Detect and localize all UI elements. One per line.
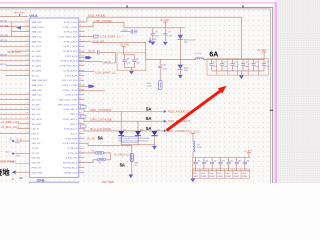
pin number right row 31 <box>80 165 82 166</box>
pin stub right row 6 <box>79 45 84 47</box>
capacitor C81 <box>203 158 205 163</box>
pin stub right row 22 <box>79 123 84 125</box>
svg-text:ILI/TB_2_BCK: ILI/TB_2_BCK <box>64 32 78 34</box>
inductor L9 <box>195 58 204 59</box>
pin number U9-B <box>12 178 14 179</box>
svg-text:0.1uF: 0.1uF <box>213 66 217 68</box>
pin number right row 6 <box>80 44 82 45</box>
workspace area right of sheet <box>278 0 320 183</box>
svg-text:PWR_ON: PWR_ON <box>32 167 42 169</box>
svg-text:C72: C72 <box>223 62 226 64</box>
svg-text:C76: C76 <box>265 62 268 64</box>
pin number right row 7 <box>80 49 82 50</box>
pin stub right row 8 <box>79 55 84 57</box>
wire R46 leads <box>106 159 111 161</box>
svg-text:SMB_RST: SMB_RST <box>32 41 43 43</box>
component box right cap row <box>207 59 268 76</box>
capacitor C64 horizontal <box>79 51 97 53</box>
capacitor C68 <box>159 59 161 66</box>
svg-text:5V8_D1: 5V8_D1 <box>0 64 7 66</box>
svg-text:ILI/TB_1_PCM: ILI/TB_1_PCM <box>63 46 77 48</box>
svg-text:5A: 5A <box>120 162 125 167</box>
capacitor C82 <box>211 158 213 163</box>
svg-text:VDD_SD: VDD_SD <box>32 143 41 145</box>
wire BLU_CATHODE <box>79 128 164 131</box>
svg-text:SD_WP: SD_WP <box>32 104 40 106</box>
svg-text:ILI3A_NN: ILI3A_NN <box>92 39 104 43</box>
pin stub right row 20 <box>79 113 84 115</box>
IC U9-A body <box>30 18 79 177</box>
pin number right row 26 <box>80 141 82 142</box>
ferrite bead FB3 <box>79 36 94 38</box>
svg-text:ILI/TB_FB: ILI/TB_FB <box>68 153 78 155</box>
note box LED parts <box>122 136 138 142</box>
svg-text:GBE_GVDK_CTRL2: GBE_GVDK_CTRL2 <box>58 104 79 106</box>
svg-text:SPI_CS0: SPI_CS0 <box>32 109 42 111</box>
svg-text:SENSE_GND: SENSE_GND <box>64 172 78 174</box>
wire left pin row 18 <box>0 103 30 105</box>
svg-text:TP11: TP11 <box>123 30 127 32</box>
wire left pin row 23 <box>18 128 30 130</box>
svg-text:5V8_D0: 5V8_D0 <box>0 54 7 56</box>
svg-text:0.1uF: 0.1uF <box>265 66 269 68</box>
power port down arrow <box>149 38 151 41</box>
wire left pin row 20 <box>0 113 30 115</box>
ground right cap row <box>240 71 242 76</box>
pin number right row 5 <box>80 39 82 40</box>
zone tick top <box>126 5 129 7</box>
pin stub right row 30 <box>79 162 84 164</box>
pin stub right row 32 <box>79 171 84 173</box>
svg-text:0.1uF: 0.1uF <box>155 36 159 38</box>
svg-text:+5_AU: +5_AU <box>87 136 96 140</box>
ground mid cluster <box>131 68 133 71</box>
port arrow ground annotation <box>12 170 16 174</box>
ground below D16 <box>179 69 181 75</box>
svg-text:[4]: [4] <box>16 126 19 129</box>
pin number right row 30 <box>80 161 82 162</box>
pin stub right row 17 <box>79 99 84 101</box>
svg-text:DNP: DNP <box>153 39 156 41</box>
wire left pin row 8 <box>0 55 30 57</box>
LED D21 BLU <box>154 130 156 132</box>
svg-text:GBE_GVDK_CTRL: GBE_GVDK_CTRL <box>59 100 78 102</box>
svg-text:ILI/TB_BLU_K: ILI/TB_BLU_K <box>64 129 78 131</box>
svg-text:LED_G: LED_G <box>32 133 39 135</box>
svg-text:SPI_MISO: SPI_MISO <box>32 124 42 126</box>
svg-text:5V8_SDA: 5V8_SDA <box>0 24 9 27</box>
pin number right row 1 <box>80 20 82 21</box>
svg-text:ILI/TB_A_BCK: ILI/TB_A_BCK <box>63 69 77 72</box>
wire left pin row 1 <box>0 21 30 23</box>
svg-text:BZT52C4V2 BZT52C4V2 BZT52C4V2: BZT52C4V2 BZT52C4V2 BZT52C4V2 BZ <box>119 138 150 140</box>
component box C66 C67 <box>117 53 146 71</box>
wire net USD_ANODE 2 <box>79 22 124 27</box>
wire left pin row 11 <box>0 70 30 72</box>
svg-text:10.0BG: 10.0BG <box>242 176 248 178</box>
inductor L10 vertical <box>193 141 195 152</box>
wire left pin row 22 <box>18 123 30 125</box>
svg-text:BLU_K: BLU_K <box>71 133 78 135</box>
capacitor C83 <box>219 158 221 163</box>
pin stub right row 31 <box>79 167 84 169</box>
wire R45 right <box>104 153 111 160</box>
pin number right row 22 <box>80 122 82 123</box>
pin stub right row 12 <box>79 74 84 76</box>
svg-text:5V8_SD: 5V8_SD <box>0 20 8 22</box>
sheet border pink right <box>275 2 278 183</box>
wire RED_CATHODE <box>79 109 164 112</box>
svg-text:ILI/TB_PWM_A: ILI/TB_PWM_A <box>63 142 78 145</box>
svg-text:USD_ANODE: USD_ANODE <box>88 13 106 17</box>
wire ground annotation to pin <box>16 171 30 173</box>
svg-text:ILI/TB_GPIO2_BCK: ILI/TB_GPIO2_BCK <box>58 36 78 38</box>
wire bottom cap bus lower <box>193 170 251 172</box>
pin number right row 4 <box>80 34 82 35</box>
wire stub UART label <box>19 14 21 16</box>
svg-text:C83: C83 <box>222 161 225 163</box>
svg-text:SMB_SD2: SMB_SD2 <box>32 90 43 92</box>
svg-text:SD_DAT3: SD_DAT3 <box>32 69 42 72</box>
svg-text:C64 1uF: C64 1uF <box>88 51 96 53</box>
svg-text:TP_EN: TP_EN <box>32 148 39 150</box>
pin number right row 14 <box>80 83 82 84</box>
svg-text:ILI/TB_RSV: ILI/TB_RSV <box>66 158 78 160</box>
svg-text:C74: C74 <box>244 62 247 64</box>
svg-text:LED_R: LED_R <box>32 129 39 131</box>
pin number right row 32 <box>80 170 82 171</box>
capacitor C84 <box>228 158 230 163</box>
pin number right row 27 <box>80 146 82 147</box>
svg-text:SMB_CS2: SMB_CS2 <box>32 95 43 97</box>
svg-text:10.0BG: 10.0BG <box>201 176 207 178</box>
capacitor C80 <box>195 158 197 163</box>
port arrow right <box>79 57 86 59</box>
sheet frame gray outer <box>0 8 273 183</box>
wire +5 rail top <box>124 27 185 29</box>
svg-text:0.1uF: 0.1uF <box>234 66 238 68</box>
wire net to rail2 <box>92 42 146 59</box>
capacitor C76 <box>263 59 265 63</box>
svg-text:VSD_PWM: VSD_PWM <box>32 172 43 174</box>
svg-text:ILI/TB_PWM: ILI/TB_PWM <box>65 138 77 140</box>
svg-text:D21: D21 <box>157 129 160 131</box>
annotation arrow red <box>167 90 222 131</box>
svg-text:SD_DAT2: SD_DAT2 <box>32 65 42 68</box>
svg-text:+5_VIN: +5_VIN <box>257 48 266 52</box>
pin stub right row 9 <box>79 60 84 62</box>
port BLU_ANODE <box>164 129 167 132</box>
net label ILI3A_BSMT_LC 2 <box>79 71 95 73</box>
capacitor C73 <box>232 59 234 63</box>
wire TP32 to pin <box>15 140 29 142</box>
pin stub right row 25 <box>79 137 84 139</box>
pin number right row 20 <box>80 112 82 113</box>
svg-text:5A: 5A <box>98 136 103 141</box>
svg-text:ILI/TB_1_CTRL: ILI/TB_1_CTRL <box>63 27 79 29</box>
pin stub right row 10 <box>79 65 84 67</box>
capacitor C72 <box>221 59 223 63</box>
svg-text:0.1uF: 0.1uF <box>223 66 227 68</box>
svg-text:SD_CLK1: SD_CLK1 <box>32 100 42 102</box>
svg-text:10.0BG: 10.0BG <box>217 176 223 178</box>
capacitor C75 <box>253 59 255 63</box>
svg-text:+5_ABC5 [C]: +5_ABC5 [C] <box>113 152 130 156</box>
svg-text:4.7uH: 4.7uH <box>197 147 202 149</box>
svg-text:6A: 6A <box>209 52 218 59</box>
wire left pin row 16 <box>0 94 30 96</box>
pin stub right row 16 <box>79 94 84 96</box>
svg-text:BLU_ANODE [C]: BLU_ANODE [C] <box>168 129 190 133</box>
diode D16 SS34 <box>179 59 181 64</box>
svg-text:[4]: [4] <box>16 121 19 124</box>
ground below C70 <box>163 42 168 46</box>
svg-text:10uF: 10uF <box>136 62 140 64</box>
svg-text:ILI/TB_B_PB: ILI/TB_B_PB <box>65 56 78 58</box>
svg-text:SPI_CLK: SPI_CLK <box>32 114 41 116</box>
svg-text:ILI/TB_GRN_K: ILI/TB_GRN_K <box>63 119 78 121</box>
pin stub right row 3 <box>79 31 84 33</box>
pin number right row 12 <box>80 73 82 74</box>
svg-text:BLU_CATHODE: BLU_CATHODE <box>90 127 111 131</box>
wire bus below right caps <box>212 70 265 72</box>
capacitor C66 <box>124 55 126 60</box>
wire left pin row 12 <box>6 74 30 76</box>
pin stub right row 7 <box>79 50 84 52</box>
pin stub right row 26 <box>79 142 84 144</box>
capacitor C67 <box>133 55 135 60</box>
svg-text:ILI/TB_B_BCK: ILI/TB_B_BCK <box>63 51 77 53</box>
svg-text:10.0BG: 10.0BG <box>233 176 239 178</box>
svg-text:+5_VIN: +5_VIN <box>159 18 168 22</box>
svg-text:ILI3A_BSMT_LC: ILI3A_BSMT_LC <box>95 70 116 74</box>
svg-text:GRN_CATHODE: GRN_CATHODE <box>90 118 111 122</box>
svg-text:5A: 5A <box>146 107 151 112</box>
fuse F2 <box>130 153 133 161</box>
svg-text:RSV/TB_EN_A: RSV/TB_EN_A <box>63 162 78 165</box>
svg-text:LED_B: LED_B <box>32 138 39 140</box>
svg-text:ILI/TB_B_BCKLN: ILI/TB_B_BCKLN <box>61 61 78 63</box>
wire bus mid <box>125 67 135 69</box>
svg-text:+5_BLU_LC: +5_BLU_LC <box>1 125 16 129</box>
svg-text:C86: C86 <box>246 161 249 163</box>
svg-text:0.1uF: 0.1uF <box>126 62 130 64</box>
pin stub right row 11 <box>79 70 84 72</box>
pin stub right row 18 <box>79 103 84 105</box>
sheet frame gray inner <box>0 9 270 183</box>
wire net USD_ANODE riser <box>79 17 242 59</box>
port arrow right 2 <box>79 85 88 87</box>
svg-text:ILI/TB_RED_K: ILI/TB_RED_K <box>63 109 78 111</box>
pin number right row 10 <box>80 64 82 65</box>
port RED_ANODE <box>164 110 167 113</box>
capacitor C86 <box>244 158 246 163</box>
wire vertical bus left <box>11 22 13 36</box>
svg-text:C73: C73 <box>234 62 237 64</box>
wire TP33 to pin <box>15 153 29 155</box>
svg-text:[4]: [4] <box>13 161 16 164</box>
pin number right row 8 <box>80 54 82 55</box>
capacitor C70 <box>164 28 166 34</box>
pin number right row 2 <box>80 25 82 26</box>
svg-text:5V8_SCK: 5V8_SCK <box>0 35 9 37</box>
svg-text:C71: C71 <box>213 62 216 64</box>
pin stub right row 4 <box>79 36 84 38</box>
svg-text:+5_AUX: +5_AUX <box>244 150 253 153</box>
svg-text:L20 1uF: L20 1uF <box>104 61 111 63</box>
svg-text:SOD-123 SCH SOD-123 SCH SOD-12: SOD-123 SCH SOD-123 SCH SOD-123 <box>119 141 148 143</box>
svg-text:ILI3A_BSMT_LC: ILI3A_BSMT_LC <box>100 35 121 39</box>
diode D15 zener <box>179 28 181 35</box>
ground LED bus <box>154 145 156 146</box>
svg-text:SMB_SD1: SMB_SD1 <box>32 22 43 24</box>
pin stub right row 15 <box>79 89 84 91</box>
pin stub right row 24 <box>79 133 84 135</box>
pin number right row 16 <box>80 93 82 94</box>
IC U9-B body top edge <box>30 182 79 186</box>
pin stub right row 5 <box>79 40 84 42</box>
capacitor C74 <box>242 59 244 63</box>
svg-text:22uF: 22uF <box>162 68 166 70</box>
resistor R45 <box>79 152 95 154</box>
svg-text:SD_CMD: SD_CMD <box>32 51 41 53</box>
svg-text:D20: D20 <box>140 129 143 131</box>
svg-text:5A: 5A <box>146 116 151 121</box>
wire rail2 <box>146 58 195 60</box>
svg-text:D19: D19 <box>123 129 126 131</box>
svg-text:TP_32: TP_32 <box>16 139 23 141</box>
svg-text:VSD_FB: VSD_FB <box>32 163 41 165</box>
wire fuse to ground <box>131 162 133 175</box>
wire rail mid <box>124 54 135 56</box>
wire row y91 <box>79 90 105 92</box>
svg-text:SMB_SCK1: SMB_SCK1 <box>32 85 44 87</box>
svg-text:TP26: TP26 <box>15 143 19 145</box>
ground fuse <box>128 175 133 179</box>
svg-text:ILI/TB_4_PB: ILI/TB_4_PB <box>65 95 78 97</box>
svg-text:C68: C68 <box>162 64 165 66</box>
pin number right row 9 <box>80 59 82 60</box>
wire left pin row 7 <box>12 50 30 52</box>
wire GRN_CATHODE <box>79 119 164 122</box>
svg-text:TP_INT: TP_INT <box>32 153 40 155</box>
svg-text:10.0BG: 10.0BG <box>209 176 215 178</box>
resistor R40 vertical <box>159 71 161 81</box>
resistor R46 <box>97 159 106 161</box>
svg-text:GRN_K: GRN_K <box>70 124 78 126</box>
wire left pin row 10 <box>6 65 30 67</box>
pin stub right row 2 <box>79 26 84 28</box>
pin number right row 13 <box>80 78 82 79</box>
pin number right row 29 <box>80 156 82 157</box>
wire VSD_PWM to pin <box>15 163 30 165</box>
pin number right row 11 <box>80 68 82 69</box>
sheet border pink top <box>0 2 278 3</box>
wire row with label L20 <box>79 60 103 62</box>
sheet background <box>0 0 320 183</box>
net label ILI3A_NN <box>79 40 91 42</box>
svg-text:RSV/TB_EN_B: RSV/TB_EN_B <box>63 167 78 169</box>
svg-text:ILI/TB_4_BCK: ILI/TB_4_BCK <box>64 41 78 43</box>
svg-text:SD_DAT0: SD_DAT0 <box>32 55 42 58</box>
svg-text:C65: C65 <box>155 32 158 34</box>
svg-text:L9 2.2uH: L9 2.2uH <box>195 53 203 55</box>
wire left pin row 5 <box>0 40 30 42</box>
svg-text:0.1uF: 0.1uF <box>255 66 259 68</box>
svg-text:R41: R41 <box>153 41 156 43</box>
zone tick right frame <box>270 109 273 112</box>
svg-text:+5_RED_LC: +5_RED_LC <box>1 120 17 124</box>
wire top-left above IC <box>0 15 28 17</box>
capacitor C85 <box>236 158 238 163</box>
pin stub right row 27 <box>79 147 84 149</box>
wire left pin row 24 <box>0 133 30 135</box>
ground bottom cap row <box>192 158 194 179</box>
svg-text:10.0BG: 10.0BG <box>192 176 198 178</box>
svg-text:ILI/TB_EN: ILI/TB_EN <box>68 148 78 150</box>
svg-text:SD_CD: SD_CD <box>32 75 40 77</box>
svg-text:ILI/TB_1_PCM2: ILI/TB_1_PCM2 <box>62 85 78 87</box>
wire left pin row 2 <box>0 26 30 28</box>
svg-text:4.7uF: 4.7uF <box>167 36 171 38</box>
pin number right row 24 <box>80 131 82 132</box>
svg-text:C75: C75 <box>255 62 258 64</box>
pin number right row 25 <box>80 136 82 137</box>
pin stub right row 13 <box>79 79 84 81</box>
LED D19 RED <box>120 112 122 132</box>
svg-text:ILI/TB_A_PB: ILI/TB_A_PB <box>65 74 78 77</box>
svg-text:C67: C67 <box>136 58 139 60</box>
svg-text:774: 774 <box>98 162 101 164</box>
wire trunk fuse <box>79 143 132 153</box>
svg-text:USD_ANODE: USD_ANODE <box>94 19 112 23</box>
ground below C65 <box>150 42 155 46</box>
svg-text:D20_RED: D20_RED <box>102 180 115 183</box>
wire left pin row 9 <box>0 60 30 62</box>
port GRN_ANODE <box>164 120 167 123</box>
wire left pin row 3 <box>12 31 30 33</box>
wire left pin row 21 <box>0 118 30 120</box>
wire left pin row 17 <box>0 99 30 101</box>
svg-text:RED_ANODE [C]: RED_ANODE [C] <box>168 110 190 114</box>
svg-text:VSD_EN: VSD_EN <box>32 158 41 160</box>
svg-text:C81: C81 <box>205 161 208 163</box>
svg-text:SMB_CS1: SMB_CS1 <box>32 36 43 38</box>
svg-text:接地: 接地 <box>0 168 10 177</box>
svg-text:RED_K: RED_K <box>70 114 78 116</box>
pin number right row 18 <box>80 102 82 103</box>
svg-text:TP27: TP27 <box>16 155 20 157</box>
svg-text:ILI/TB_GPIO_BCK: ILI/TB_GPIO_BCK <box>60 66 78 68</box>
component box bottom cap labels <box>193 169 250 178</box>
svg-text:SD_DAT1: SD_DAT1 <box>32 60 42 63</box>
svg-text:SD_CLK0: SD_CLK0 <box>32 46 42 48</box>
svg-text:SMB_ROW0: SMB_ROW0 <box>32 27 45 29</box>
pin stub right row 1 <box>79 21 84 23</box>
svg-text:SMB_SDA_BCK: SMB_SDA_BCK <box>32 79 48 82</box>
wire left pin row 19 <box>0 108 30 110</box>
pin number right row 17 <box>80 98 82 99</box>
svg-text:SMB_SD5: SMB_SD5 <box>8 50 22 54</box>
capacitor C65 <box>152 28 154 34</box>
svg-text:5A: 5A <box>146 126 151 131</box>
pin number right row 28 <box>80 151 82 152</box>
svg-text:SPI_MOSI: SPI_MOSI <box>32 119 43 121</box>
svg-text:ILI/TB_1_BCK2: ILI/TB_1_BCK2 <box>63 90 79 92</box>
svg-text:5V8_CS: 5V8_CS <box>0 40 8 42</box>
svg-text:10.0BG: 10.0BG <box>225 176 231 178</box>
svg-text:ILI/TB_1_BCK: ILI/TB_1_BCK <box>64 22 78 24</box>
